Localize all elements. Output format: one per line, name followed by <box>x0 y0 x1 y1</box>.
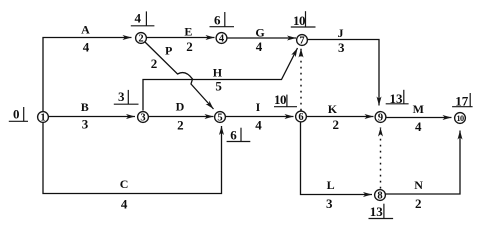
svg-text:3: 3 <box>338 40 345 55</box>
wire M: arrow 9 to 10 <box>387 117 452 119</box>
time marker 13 at node 8 <box>369 204 394 219</box>
svg-text:I: I <box>256 100 261 114</box>
svg-text:J: J <box>338 26 344 40</box>
node 6 <box>296 111 307 123</box>
svg-text:3: 3 <box>140 112 145 123</box>
svg-text:10: 10 <box>274 92 286 107</box>
node 5 <box>215 112 226 124</box>
wire K: arrow 6 to 9 <box>307 116 374 118</box>
svg-text:5: 5 <box>215 79 222 94</box>
node 1 <box>38 112 49 124</box>
wire E: arrow 2 to 4 <box>147 37 215 39</box>
svg-text:2: 2 <box>177 118 184 133</box>
svg-text:5: 5 <box>217 112 222 123</box>
svg-text:4: 4 <box>83 40 90 55</box>
svg-text:D: D <box>176 100 185 114</box>
wire J: arrow 7 right then down to 9 <box>308 40 380 106</box>
svg-text:2: 2 <box>138 33 143 44</box>
svg-text:4: 4 <box>135 11 142 26</box>
svg-text:G: G <box>255 26 264 40</box>
svg-text:2: 2 <box>415 196 422 211</box>
time marker 13 at node 9 <box>386 90 409 106</box>
svg-text:2: 2 <box>186 39 193 54</box>
wire D: arrow 3 to 5 <box>149 116 214 118</box>
svg-text:4: 4 <box>255 118 262 133</box>
svg-text:1: 1 <box>40 112 45 123</box>
svg-text:7: 7 <box>299 35 304 46</box>
svg-text:13: 13 <box>370 204 384 219</box>
wire H: arrow 3 up, right, diagonal to 7 <box>143 48 298 111</box>
svg-text:6: 6 <box>230 128 237 143</box>
time marker 6 at node 4 <box>210 12 235 28</box>
node 9 <box>375 112 386 124</box>
time marker 17 at node 10 <box>452 93 473 109</box>
svg-text:3: 3 <box>118 89 125 104</box>
svg-text:M: M <box>413 102 424 116</box>
svg-text:9: 9 <box>378 112 383 123</box>
svg-text:3: 3 <box>82 117 89 132</box>
svg-text:B: B <box>81 100 89 114</box>
svg-text:0: 0 <box>13 107 20 122</box>
dummy arrow 6 to 7 (dotted) <box>300 49 302 111</box>
svg-text:6: 6 <box>298 112 303 123</box>
svg-text:3: 3 <box>326 196 333 211</box>
node 3 <box>138 112 149 124</box>
svg-text:6: 6 <box>214 13 221 28</box>
svg-text:10: 10 <box>293 13 305 28</box>
svg-text:4: 4 <box>121 196 128 211</box>
time marker 10 at node 6 <box>274 92 297 107</box>
node 4 <box>216 33 227 45</box>
time marker 3 at node 3 <box>114 89 139 104</box>
dummy arrow 8 to 9 (dotted) <box>380 128 382 189</box>
svg-text:N: N <box>414 178 423 192</box>
node 10 <box>455 113 466 124</box>
svg-text:2: 2 <box>333 117 340 132</box>
wire P: diagonal arrow 2 to 5 with hop over H <box>145 42 214 110</box>
wire A: arrow 1 to 2 <box>43 38 132 112</box>
wire N: arrow 8 right then up to 10 <box>386 131 461 195</box>
svg-text:10: 10 <box>457 114 464 123</box>
wire I: arrow 5 to 6 <box>226 116 294 118</box>
svg-text:C: C <box>120 177 129 191</box>
wire L: arrow 6 down then right to 8 <box>301 123 373 195</box>
time marker 10 at node 7 <box>291 11 316 28</box>
node 7 <box>297 35 308 47</box>
svg-text:4: 4 <box>415 119 422 134</box>
svg-text:8: 8 <box>377 190 382 201</box>
node 8 <box>375 190 386 202</box>
svg-text:4: 4 <box>219 33 225 44</box>
svg-text:H: H <box>213 66 223 80</box>
svg-text:2: 2 <box>151 56 158 71</box>
time marker 4 at node 2 <box>131 11 155 26</box>
wire B: arrow 1 to 3 <box>49 116 136 118</box>
time marker 0 at node 1 <box>9 107 28 122</box>
svg-text:L: L <box>327 178 335 192</box>
svg-text:4: 4 <box>256 39 263 54</box>
time marker 6 at node 5 <box>227 128 251 143</box>
wire G: arrow 4 to 7 <box>227 37 296 39</box>
svg-text:A: A <box>81 23 90 37</box>
svg-text:P: P <box>165 44 172 58</box>
node 2 <box>136 33 147 45</box>
svg-text:E: E <box>184 25 192 39</box>
wire C: arrow 1 down, right, up to 5 <box>43 123 222 194</box>
svg-text:K: K <box>328 102 338 116</box>
